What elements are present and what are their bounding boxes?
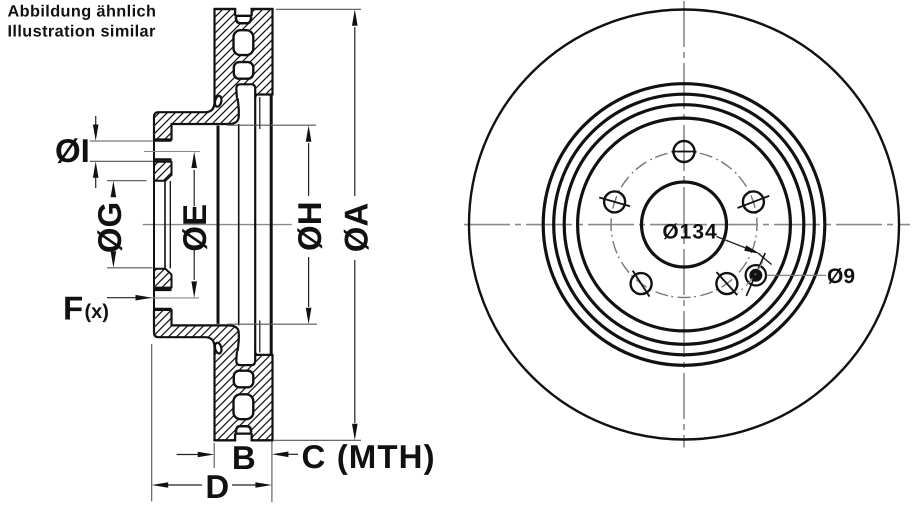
bolt hole top — [672, 141, 697, 162]
svg-text:ØG: ØG — [91, 202, 128, 253]
svg-text:D: D — [205, 468, 229, 505]
label C (MTH) — [272, 438, 436, 475]
hat cylinder edge line — [217, 126, 220, 324]
disc edge with vent groove step — [213, 9, 273, 16]
horizontal centerline of section — [143, 224, 292, 226]
dim OG — [91, 181, 152, 268]
svg-text:C (MTH): C (MTH) — [302, 438, 436, 475]
center bore — [642, 182, 727, 267]
O9 locating hole — [746, 253, 826, 296]
top half hatched silhouette: friction ring block + hat flange + wall box — [153, 7, 274, 181]
ring 2 — [554, 94, 815, 355]
svg-text:ØA: ØA — [337, 203, 374, 253]
ring 3 — [564, 105, 804, 345]
vent hole 1 — [234, 30, 254, 55]
bolt hole upper-left — [599, 191, 630, 212]
horizontal centerline — [464, 224, 910, 226]
friction ring bottom half hatched silhouette — [154, 310, 273, 441]
vent channel end pocket — [214, 95, 223, 107]
vertical centerline — [683, 1, 685, 448]
outboard plate inner step edge mirror — [259, 320, 261, 352]
dim OA — [274, 9, 374, 440]
O9 position dash-dot arc — [738, 261, 763, 293]
svg-text:Illustration similar: Illustration similar — [8, 23, 156, 41]
svg-text:Ø134: Ø134 — [662, 221, 717, 244]
label F(x) with leader — [63, 290, 152, 327]
bottom half = mirror of top about y=224.7 — [153, 269, 274, 443]
bore projected edge — [169, 181, 171, 268]
svg-text:Ø9: Ø9 — [827, 265, 855, 288]
vent hole 3 — [234, 371, 254, 388]
svg-text:Abbildung ähnlich: Abbildung ähnlich — [8, 2, 157, 20]
ring 1 — [543, 84, 825, 366]
vent hole 2 — [234, 62, 254, 79]
outboard plate inner step edge — [259, 97, 261, 129]
svg-text:ØH: ØH — [291, 201, 328, 251]
outboard friction surface line — [270, 94, 273, 355]
dim B — [177, 439, 272, 502]
wheel bolt hole edges (thick) — [153, 139, 172, 142]
wall chamfer block (bottom) — [154, 269, 172, 288]
wheel bolt hole edge (bottom) — [153, 308, 172, 311]
bolt circle dash-dot — [611, 152, 757, 298]
bore inner thin-wall line — [164, 181, 166, 268]
disc edge with vent groove step — [213, 434, 273, 441]
bolt hole lower-right — [716, 272, 737, 295]
dim OH — [227, 125, 328, 324]
ring 4 — [578, 118, 791, 331]
wall second block with chamfer — [154, 162, 172, 181]
hub wall outer edge — [153, 115, 155, 334]
dim OE — [176, 152, 213, 298]
wheel bolt hole centerline bottom — [143, 297, 199, 299]
svg-text:B: B — [232, 439, 256, 476]
vent channel end pocket (bottom) — [214, 342, 223, 354]
wheel bolt hole centerline top — [144, 151, 200, 153]
outer circle — [469, 10, 899, 440]
bottom edge notch — [235, 434, 250, 443]
svg-text:ØI: ØI — [55, 132, 90, 169]
wheel bolt hole edge (bottom) — [153, 288, 172, 291]
vent channel cap — [236, 84, 255, 98]
bolt hole upper-right — [738, 191, 770, 212]
vent opening projected edge — [238, 124, 240, 325]
svg-text:ØE: ØE — [176, 204, 213, 252]
top edge notch — [235, 7, 250, 16]
vent hole 4 — [234, 394, 254, 419]
O134 label and leader arrow — [717, 237, 772, 265]
svg-text:(x): (x) — [85, 301, 109, 323]
svg-text:F: F — [63, 290, 83, 327]
vent channel cap (bottom) — [236, 351, 255, 365]
bolt hole lower-left — [631, 271, 652, 297]
vent channel right wall — [254, 96, 256, 353]
dim D — [152, 344, 272, 505]
dim OI — [55, 116, 153, 188]
